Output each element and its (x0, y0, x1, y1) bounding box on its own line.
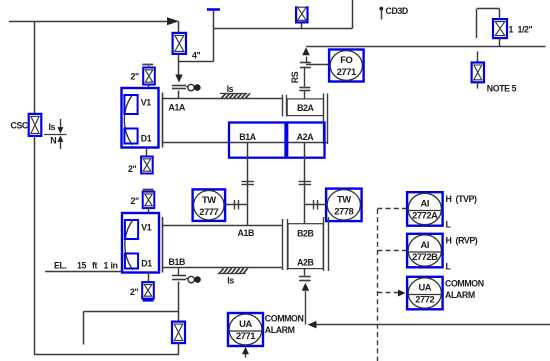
svg-text:D1: D1 (141, 133, 152, 143)
valve 4-inch block (173, 33, 186, 54)
svg-text:RS: RS (290, 71, 300, 83)
label 1 1/2" (509, 24, 533, 34)
sample tick on A2A drop (299, 182, 312, 185)
wire drop from B1A (247, 142, 249, 225)
arrowhead up into UA 2771 (242, 347, 249, 358)
blind cap below lower device valve (143, 299, 154, 301)
flange pair right lower (324, 217, 329, 271)
svg-text:A1B: A1B (238, 228, 254, 238)
wire device to lower 2-inch valve (146, 148, 148, 156)
label EL. 15 ft 1 in (45, 261, 122, 272)
instrument UA 2772 (407, 277, 443, 310)
seal Is upper (220, 84, 250, 98)
instrument UA 2771 (228, 313, 263, 346)
sample tick on B1A drop (241, 182, 254, 185)
svg-text:A2A: A2A (297, 132, 314, 142)
wire common alarm signal line (311, 324, 550, 326)
wire drain valve to header (178, 343, 180, 355)
arrowhead up into A2B (302, 283, 310, 325)
seal Is lower (218, 268, 248, 285)
svg-text:ALARM: ALARM (265, 325, 295, 335)
label L upper (446, 220, 452, 230)
wire NOTE5 stem bottom (477, 82, 479, 88)
arrowhead down into A1A blind (175, 74, 183, 83)
wire drop from A2A (304, 142, 306, 223)
svg-text:AI: AI (421, 239, 429, 250)
label COMMON ALARM left (265, 314, 304, 335)
svg-text:2771: 2771 (337, 66, 356, 77)
wire RS to spool B2A (304, 91, 306, 99)
wire bottom drain header (34, 354, 179, 356)
flange pair left upper (283, 95, 287, 117)
valve top header block (296, 6, 307, 22)
instrument AI 2772A (407, 192, 443, 226)
blind flange pair A1A (172, 86, 186, 89)
label RS (290, 71, 300, 83)
wire dashed branch AI2772B (377, 250, 406, 252)
wire 4-inch branch elbow (179, 29, 214, 62)
label H (RVP) (446, 236, 478, 246)
svg-text:2771: 2771 (236, 330, 255, 341)
svg-text:B1A: B1A (239, 132, 256, 142)
pipe column lower device (162, 217, 164, 273)
wire blind to pipe A1A (178, 91, 180, 99)
arrowhead up into signal header (302, 47, 310, 55)
analyzer cell A2A (287, 123, 324, 158)
svg-text:2": 2" (130, 287, 138, 297)
wire lower device to bottom 2-inch valve (148, 273, 150, 283)
arrowhead into UA2772 (398, 290, 406, 297)
arrowhead left common alarm (308, 321, 317, 329)
node Is/N interface marker (44, 119, 67, 149)
valve 1-1/2 inch bypass (493, 19, 507, 38)
svg-text:UA: UA (239, 318, 252, 329)
spool B2A (287, 99, 323, 116)
thermowell connection TW2777 (225, 200, 248, 210)
label CD3D (386, 6, 408, 16)
svg-text:2772A: 2772A (412, 210, 438, 221)
svg-text:H (TVP): H (TVP) (446, 194, 477, 204)
instrument AI 2772B (407, 234, 443, 267)
label NOTE 5 (487, 83, 517, 93)
label 2" upper-bottom (128, 164, 136, 174)
spool B2B/A2B (288, 224, 323, 269)
sample connection RS upper bars (300, 57, 311, 68)
svg-text:COMMON: COMMON (445, 278, 484, 288)
wire 4-inch drop (178, 21, 180, 33)
sample connection RS lower bars (299, 88, 310, 91)
blind cap above upper sample device (142, 64, 153, 66)
wire valve stem to header (301, 24, 303, 29)
svg-text:B1B: B1B (169, 257, 185, 267)
svg-text:Is: Is (227, 84, 234, 94)
wire dashed signal trunk (377, 209, 379, 361)
svg-text:TW: TW (202, 194, 216, 205)
sample device lower (V1/D1) (122, 213, 159, 273)
svg-text:2777: 2777 (199, 206, 218, 217)
svg-text:CSC: CSC (11, 120, 29, 130)
wire dashed branch AI2772A (377, 208, 406, 210)
valve CSC (29, 114, 42, 136)
svg-text:2": 2" (128, 164, 136, 174)
svg-text:2": 2" (131, 72, 139, 82)
spectacle blind circles B1B (186, 276, 201, 283)
valve NOTE 5 (472, 63, 484, 83)
svg-text:Is: Is (49, 122, 56, 132)
svg-text:FO: FO (340, 54, 352, 65)
node CD3D connection pin (379, 7, 383, 20)
analyzer cell B1A (229, 123, 286, 158)
blind flange pair B1B (172, 268, 186, 280)
svg-text:2778: 2778 (334, 205, 353, 216)
svg-text:V1: V1 (141, 98, 151, 108)
wire vent riser with cap (207, 10, 220, 29)
wire main process inlet line (top left) (9, 21, 171, 23)
label CSC (11, 120, 29, 130)
svg-text:B2B: B2B (297, 229, 313, 239)
pipe column upper device (162, 93, 164, 148)
wire below 4-inch valve (178, 54, 180, 75)
label COMMON ALARM right (445, 278, 484, 300)
sample device upper (V1/D1) (122, 88, 159, 148)
instrument FO 2771 (329, 50, 364, 82)
pipe D1 row (162, 142, 327, 144)
label B1B (169, 257, 185, 267)
wire bypass valve stem (499, 38, 501, 46)
wire top header (214, 0, 353, 29)
svg-text:COMMON: COMMON (265, 314, 304, 324)
instrument TW 2778 (326, 189, 362, 222)
svg-text:N: N (50, 135, 56, 145)
flange pair right upper (324, 94, 328, 145)
svg-text:AI: AI (421, 198, 429, 209)
label 2" upper-top (131, 72, 139, 82)
wire FO tap (306, 64, 329, 66)
label A1A (169, 103, 186, 113)
svg-text:2772B: 2772B (412, 251, 438, 262)
label 2" lower-bottom (130, 287, 138, 297)
svg-text:A2B: A2B (297, 257, 313, 267)
svg-text:ALARM: ALARM (445, 290, 475, 300)
valve 2-inch upper-top (143, 68, 155, 85)
wire dashed branch UA2772 (377, 292, 398, 294)
label L lower (446, 261, 452, 271)
sample connection A2B (299, 269, 311, 281)
valve drain block (172, 322, 185, 344)
wire drain drop (178, 282, 180, 322)
wire signal header right (306, 46, 545, 48)
svg-text:UA: UA (418, 282, 431, 293)
flange pair left lower (283, 219, 288, 270)
svg-text:2": 2" (131, 196, 139, 206)
svg-text:TW: TW (337, 193, 351, 204)
label H (TVP) (446, 194, 477, 204)
pipe A1B (162, 225, 283, 227)
arrowhead inlet flow direction (167, 17, 179, 25)
pipe B1B (162, 267, 283, 269)
svg-text:11/2": 11/2" (509, 24, 533, 34)
blind cap above lower sample device (143, 189, 154, 191)
pipe A1A (162, 98, 283, 100)
valve 2-inch lower-top (143, 192, 155, 209)
wire bypass loop (477, 9, 500, 39)
label A1B (238, 228, 254, 238)
spectacle blind open/closed circles A1A (186, 84, 201, 91)
svg-text:V1: V1 (141, 223, 151, 233)
thermowell connection TW2778 (305, 200, 326, 210)
wire left header vertical (34, 21, 36, 354)
svg-text:D1: D1 (141, 258, 152, 268)
svg-text:4": 4" (192, 51, 200, 61)
svg-text:A1A: A1A (169, 103, 186, 113)
svg-text:H (RVP): H (RVP) (446, 236, 478, 246)
valve 2-inch upper-bottom (141, 157, 153, 174)
label 2" lower-top (131, 196, 139, 206)
svg-text:2772: 2772 (415, 294, 434, 305)
valve 2-inch lower-bottom (142, 282, 154, 299)
svg-text:CD3D: CD3D (386, 6, 408, 16)
svg-text:Is: Is (227, 275, 234, 285)
wire valve to lower device top (148, 190, 150, 213)
wire valve to device top (148, 66, 150, 88)
wire drain sub-branch (84, 312, 179, 345)
wire RS column (304, 68, 306, 87)
wire NOTE5 drop (477, 51, 479, 62)
svg-text:NOTE 5: NOTE 5 (487, 83, 517, 93)
instrument TW 2777 (193, 189, 226, 221)
label 4" (192, 51, 200, 61)
svg-text:B2A: B2A (297, 103, 314, 113)
